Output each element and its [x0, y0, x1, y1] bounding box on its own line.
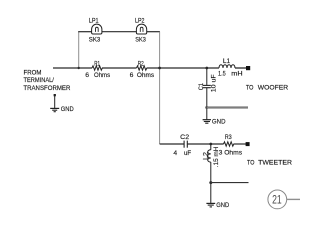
wire L2 branch lower to ground [210, 162, 212, 203]
svg-text:GND: GND [216, 202, 229, 209]
wire from sheet reference circle [287, 198, 300, 200]
svg-text:TRANSFORMER: TRANSFORMER [23, 85, 70, 92]
svg-text:L1: L1 [223, 58, 231, 65]
svg-text:SK3: SK3 [89, 36, 101, 43]
svg-text:LP1: LP1 [89, 17, 99, 24]
value 6 Ohms of R2 [130, 72, 155, 79]
wire top lamp branch left segment [78, 31, 91, 33]
lamp LP2 [136, 24, 146, 34]
svg-text:TO: TO [247, 159, 254, 166]
label TO WOOFER [246, 84, 288, 91]
svg-text:LP2: LP2 [135, 17, 145, 24]
lamp LP1 [92, 24, 102, 34]
svg-text:Ohms: Ohms [224, 149, 243, 156]
wire woofer return line [207, 106, 248, 108]
wire main input line from source to R1 [53, 67, 92, 69]
junction dot left riser and main line [78, 67, 80, 69]
label FROM TERMINAL/TRANSFORMER [23, 70, 70, 92]
wire from L1 to woofer terminal [235, 67, 247, 69]
label TO TWEETER [247, 159, 292, 166]
wire right riser from lamp branch down to tweeter branch [159, 32, 161, 144]
capacitor C1 [203, 85, 211, 87]
value 1.5 mH of L1 [218, 71, 243, 78]
svg-text:1.5: 1.5 [218, 71, 226, 78]
svg-text:Ohms: Ohms [94, 72, 111, 79]
resistor R2 [137, 66, 147, 70]
svg-text:.15 mH: .15 mH [213, 147, 220, 168]
svg-text:R3: R3 [225, 134, 232, 141]
svg-text:L2: L2 [202, 152, 209, 160]
wire between R1 and R2 [102, 67, 136, 69]
svg-text:GND: GND [61, 106, 74, 113]
svg-text:6: 6 [130, 72, 134, 79]
svg-text:C1: C1 [198, 83, 205, 90]
svg-text:TERMINAL/: TERMINAL/ [24, 77, 54, 84]
value 6 Ohms of R1 [85, 72, 110, 79]
wire tweeter return line [211, 182, 249, 184]
junction dot right riser and main line [158, 67, 161, 70]
svg-text:uF: uF [184, 150, 191, 157]
svg-text:GND: GND [212, 118, 226, 125]
resistor R3 [224, 142, 234, 146]
wire R3 to tweeter terminal [234, 143, 247, 145]
junction dot woofer return [205, 106, 208, 109]
svg-text:C2: C2 [180, 134, 189, 141]
svg-text:SK3: SK3 [135, 36, 146, 43]
svg-text:4: 4 [173, 150, 177, 157]
ground tweeter GND [206, 203, 215, 207]
svg-text:10 uF: 10 uF [210, 74, 217, 92]
junction dot L2 branch [209, 143, 212, 146]
wire from R2 to L1 [147, 67, 219, 69]
sheet reference circle 21 [268, 190, 287, 209]
ground woofer GND [203, 120, 211, 124]
value 4 uF of C2 [173, 150, 191, 157]
svg-text:FROM: FROM [24, 70, 42, 77]
wire top lamp branch right segment [147, 31, 160, 33]
inductor L1 [219, 65, 235, 68]
wire C2 to R3 [187, 143, 223, 145]
svg-text:21: 21 [272, 193, 282, 207]
wire L2 branch upper [210, 144, 212, 150]
inductor L2 [208, 150, 211, 162]
capacitor C2 [184, 141, 187, 148]
svg-text:R2: R2 [138, 60, 144, 67]
wire left riser up to lamp branch [78, 32, 80, 69]
svg-text:R1: R1 [94, 60, 100, 67]
svg-text:WOOFER: WOOFER [258, 84, 288, 91]
svg-text:mH: mH [231, 71, 242, 78]
wire top lamp branch middle segment [102, 31, 136, 33]
resistor R1 [92, 66, 102, 70]
junction dot C1 branch and main line [205, 67, 208, 70]
terminal square to tweeter [246, 142, 250, 146]
svg-text:6: 6 [85, 72, 89, 79]
svg-text:TWEETER: TWEETER [258, 159, 292, 166]
junction dot tweeter return [209, 181, 212, 184]
svg-text:TO: TO [246, 84, 254, 91]
wire C1 branch upper [206, 68, 208, 85]
value 3 Ohms of R3 [219, 149, 243, 156]
svg-text:Ohms: Ohms [137, 72, 155, 79]
terminal square to woofer [246, 66, 250, 70]
ground input GND stub with terminal square [50, 94, 59, 112]
wire tweeter branch from riser to C2 [160, 143, 184, 145]
wire C1 branch lower to ground [206, 88, 208, 120]
